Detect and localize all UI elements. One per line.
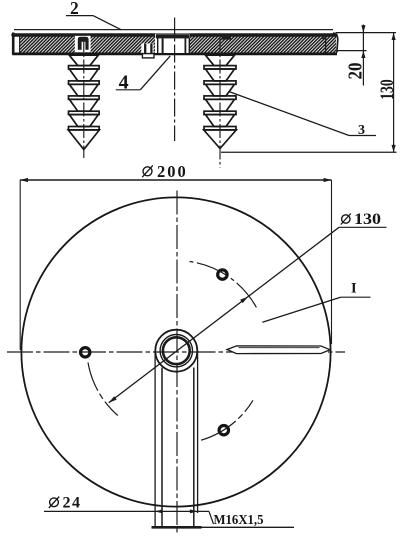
plate section body (hatched bar) — [12, 33, 337, 55]
vertical centerline of disc — [176, 191, 178, 534]
hub circles — [155, 330, 197, 372]
anchor screw right (item 3) — [204, 55, 237, 148]
svg-text:20: 20 — [345, 63, 367, 80]
svg-text:130: 130 — [354, 211, 381, 228]
label 4 with leader — [116, 56, 170, 94]
svg-text:24: 24 — [63, 495, 82, 512]
small pin left of boss — [141, 44, 154, 58]
dimension diameter 24 — [44, 495, 209, 514]
bolt hole left — [81, 348, 90, 357]
dimension 130 (right side) — [221, 33, 398, 153]
bolt circle arc upper — [190, 262, 257, 308]
bolt circle arc left — [88, 363, 118, 416]
stem bottom edge — [152, 526, 202, 529]
screw head patch above right anchor — [222, 35, 232, 39]
centerline of right anchor — [219, 38, 221, 168]
disc (item 1) outline — [21, 197, 330, 506]
dimension 20 (right side) — [336, 25, 397, 86]
dimension diameter 130 leader — [109, 211, 387, 403]
M16 underline continuation — [202, 526, 295, 528]
svg-text:I: I — [351, 281, 357, 297]
svg-text:200: 200 — [157, 162, 188, 181]
radial slot in disc — [227, 346, 330, 354]
horizontal centerline of disc — [7, 351, 345, 353]
anchor screw left (item 3) — [68, 55, 99, 149]
svg-text:130: 130 — [377, 79, 398, 100]
bolt circle arc lower — [201, 400, 253, 440]
bolt hole lower right — [219, 426, 228, 435]
hub stem lines — [155, 351, 198, 527]
label I (item 1) with leader — [262, 281, 370, 323]
screw head in plate above left anchor — [75, 36, 91, 52]
label 2 with leader — [66, 0, 121, 30]
centerline of boss (side view) — [174, 18, 176, 142]
wire: plate upper thin edge line — [14, 29, 333, 31]
central boss / nut (item 4) — [155, 34, 190, 53]
dimension diameter 200 — [20, 162, 332, 350]
svg-text:M16X1,5: M16X1,5 — [214, 512, 264, 527]
bolt hole upper right — [218, 270, 227, 279]
thread label M16X1,5 with leader — [209, 511, 264, 527]
centerline of left anchor — [83, 38, 85, 158]
label 3 with leader — [229, 92, 376, 139]
